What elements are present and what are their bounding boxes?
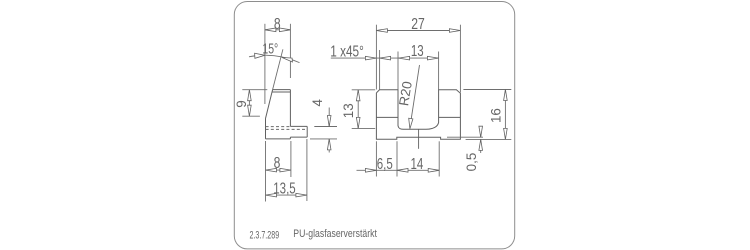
svg-text:14: 14: [410, 154, 423, 172]
part right edge of extension: [306, 126, 308, 137]
arrow dim8bot right: [280, 168, 291, 172]
part left slanted edge 15deg: [266, 90, 273, 119]
dim 13 left: dimension line: [357, 90, 359, 129]
arrow dim13left up: [356, 90, 360, 101]
dim 15deg: slant extension line: [273, 49, 283, 89]
dim 13.5: dimension line: [266, 194, 307, 196]
arrow 15deg left: [255, 53, 265, 58]
arrow dim16 up: [504, 90, 508, 101]
dim 8 top: extension line left: [264, 24, 266, 104]
dim 15deg: arc: [249, 55, 300, 62]
arrow dim13top right: [427, 56, 438, 60]
svg-text:PU-glasfaserverstärkt: PU-glasfaserverstärkt: [293, 228, 377, 240]
arrow dim13.5 left: [266, 193, 277, 197]
part base left edge: [265, 119, 267, 139]
svg-text:6,5: 6,5: [377, 154, 393, 172]
svg-text:27: 27: [411, 15, 425, 33]
part top edge line 1: [273, 89, 291, 91]
R20 leader line: [410, 65, 420, 128]
svg-text:9: 9: [234, 100, 249, 107]
part base bottom edge: [266, 138, 291, 140]
dim 0.5: stem lower: [480, 139, 482, 153]
svg-text:1 x45°: 1 x45°: [330, 43, 363, 60]
dim 0.5: stem upper: [480, 128, 482, 137]
arrow dim4 down (above): [327, 116, 331, 127]
arrow dim27 right: [449, 29, 460, 33]
arrow 15deg right: [282, 57, 293, 62]
part outline right view: [376, 90, 460, 140]
arrow dim4 up (below): [327, 139, 331, 150]
arrow dim0.5 down (above): [479, 126, 483, 137]
arrow dim8bot left: [266, 168, 277, 172]
drawing frame: [234, 2, 514, 249]
hidden dashed line lower: [266, 128, 308, 130]
dim 13 left: top extension: [352, 89, 376, 91]
part right edge of column: [289, 90, 291, 127]
arrow dim8top right: [279, 28, 290, 32]
dim 9: dimension line: [248, 90, 250, 117]
arrow chamfer left outside: [365, 56, 376, 60]
dim 4: dimension line stem upper: [328, 108, 330, 127]
svg-text:13,5: 13,5: [273, 179, 296, 197]
dim 6.5: extension left: [375, 141, 377, 176]
dim 14: extension right: [438, 141, 440, 176]
arrow dim14 left: [397, 169, 408, 173]
arrow dim6.5 left outside: [365, 169, 376, 173]
dim 8 bottom: extension line right: [290, 141, 292, 177]
svg-text:2.3.7.289: 2.3.7.289: [250, 229, 280, 242]
dim 16: dimension line: [504, 90, 506, 140]
dim 8 bottom: dimension line: [266, 169, 291, 171]
arrow dim27 left: [376, 29, 387, 33]
dim 8 bottom: extension line left: [265, 141, 267, 202]
dim 27: extension left: [375, 25, 377, 90]
witness vertical below slot bottom: [418, 129, 420, 149]
dim 13.5: extension line right: [306, 139, 308, 201]
part top edge line 2 (chamfer edge): [272, 91, 290, 93]
dim 4: top extension line: [314, 126, 337, 128]
hidden dashed line upper: [266, 126, 291, 128]
dim 16: bottom extension: [466, 138, 512, 140]
arrow dim13.5 right: [296, 193, 307, 197]
dim 16: top extension: [463, 89, 511, 91]
dim 13 top: extension right (slot wall extended): [438, 52, 440, 90]
arrow dim9 down: [248, 105, 252, 116]
dim 6.5/14: dimension line: [357, 169, 440, 171]
dim 8 top: extension line right: [289, 24, 291, 78]
part bottom of right extension: [290, 136, 307, 138]
arrow dim0.5 up (below): [479, 139, 483, 150]
arrow dim14 right: [428, 169, 439, 173]
dim 27: dimension line: [376, 30, 460, 32]
svg-text:16: 16: [489, 108, 504, 123]
chamfer extension line 2: [379, 50, 381, 90]
arrow dim13left down: [356, 117, 360, 128]
dim 13 top: extension left (slot wall extended): [397, 52, 399, 90]
dim 4: dimension line stem lower: [328, 139, 330, 153]
dim 13 left: bottom extension: [352, 127, 376, 129]
dim 9: top extension line: [242, 89, 267, 91]
part top of right extension: [290, 125, 307, 127]
dim 27: extension right: [459, 25, 461, 93]
dim 9: bottom extension line: [242, 115, 260, 117]
part step vertical at base right: [289, 137, 291, 139]
svg-text:8: 8: [274, 15, 281, 33]
dim 6.5/14: extension middle: [396, 141, 398, 176]
chamfer dim row + 13 dim line with label underline: [331, 57, 439, 59]
dim 8 top: dimension line: [265, 29, 291, 31]
svg-text:15°: 15°: [262, 41, 278, 57]
ledge line left block: [376, 116, 398, 118]
dim 4: bottom extension line: [310, 138, 337, 140]
svg-text:13: 13: [341, 103, 356, 118]
svg-text:R20: R20: [396, 80, 415, 107]
dim 0.5: upper reference line: [447, 136, 483, 138]
arrow R20 leader: [409, 118, 413, 129]
svg-text:0,5: 0,5: [464, 153, 479, 172]
arrow dim8top left: [265, 28, 276, 32]
arrow dim16 down: [504, 128, 508, 139]
ledge line right block: [439, 116, 461, 118]
arrow chamfer right outside: [380, 56, 391, 60]
svg-text:4: 4: [310, 99, 325, 107]
arrow dim13top left: [399, 56, 410, 60]
svg-text:8: 8: [274, 154, 281, 172]
svg-text:13: 13: [411, 41, 424, 59]
arrow dim9 up: [248, 90, 252, 101]
